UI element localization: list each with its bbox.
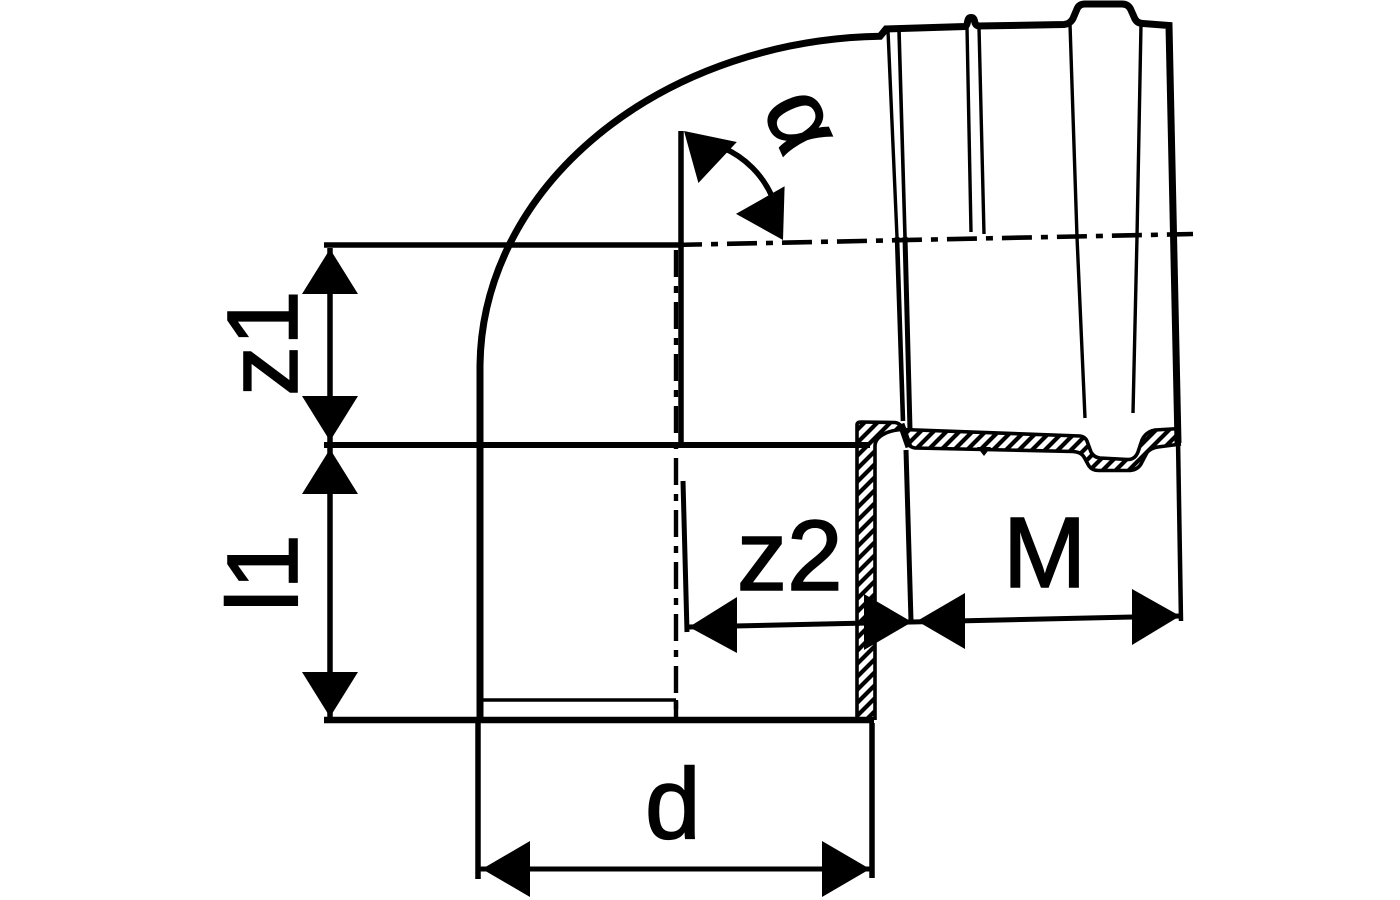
svg-text:z2: z2 [737,500,843,612]
vertical centerline (spigot axis, dash-dot) [674,250,678,716]
socket mouth face thick line [901,424,909,447]
socket mouth edge line B [899,30,905,237]
l1 arrowhead down [302,672,358,717]
z1 arrowhead down [302,396,358,441]
d dimension line [480,867,870,872]
svg-text:α: α [741,71,867,169]
svg-text:d: d [645,748,701,860]
M arrowhead right [1132,589,1180,645]
z1 top extension line [324,242,681,248]
horizontal centerline (socket axis, dash-dot) [672,234,1193,245]
z2 extension line at spigot axis [683,481,687,632]
angle vertex vertical line [678,131,684,447]
d arrowhead left [482,841,530,897]
z2 arrowhead left [689,597,737,653]
gasket groove edge right [1133,24,1141,413]
l1 arrowhead up [302,449,358,494]
z2 arrowhead right [864,594,912,650]
svg-text:l1: l1 [207,534,319,612]
z1 l1 dimension line [327,248,333,718]
d arrowhead right [822,841,870,897]
z2 M dimension line [689,616,1180,627]
d extension line left [475,723,481,879]
weld bead tick on socket lower wall [977,447,991,456]
outer elbow curve and socket top outline [480,4,1178,723]
centerline end segment at spigot mouth [674,700,678,721]
svg-text:M: M [1003,497,1086,609]
socket mouth edge line A [888,31,897,237]
angle arc arrowhead bottom [736,186,785,240]
spigot inner chamfer line [481,698,676,702]
spigot bottom edge [324,717,874,724]
z1 arrowhead up [302,249,358,294]
hatched wall section (pipe wall, mouth curl and socket lower wall) [840,410,1200,730]
socket ring line left [967,27,971,232]
d extension line right [869,723,875,878]
angle arc arrowhead top [684,131,737,183]
socket ring line right [979,27,984,234]
M extension line at socket end [1178,440,1181,621]
z2/M extension line at socket mouth [906,450,911,621]
angle arc [690,140,780,230]
M arrowhead left [917,593,965,649]
svg-text:z1: z1 [207,290,319,396]
gasket groove edge left [1070,24,1085,418]
z1/l1 boundary extension line [324,442,870,448]
